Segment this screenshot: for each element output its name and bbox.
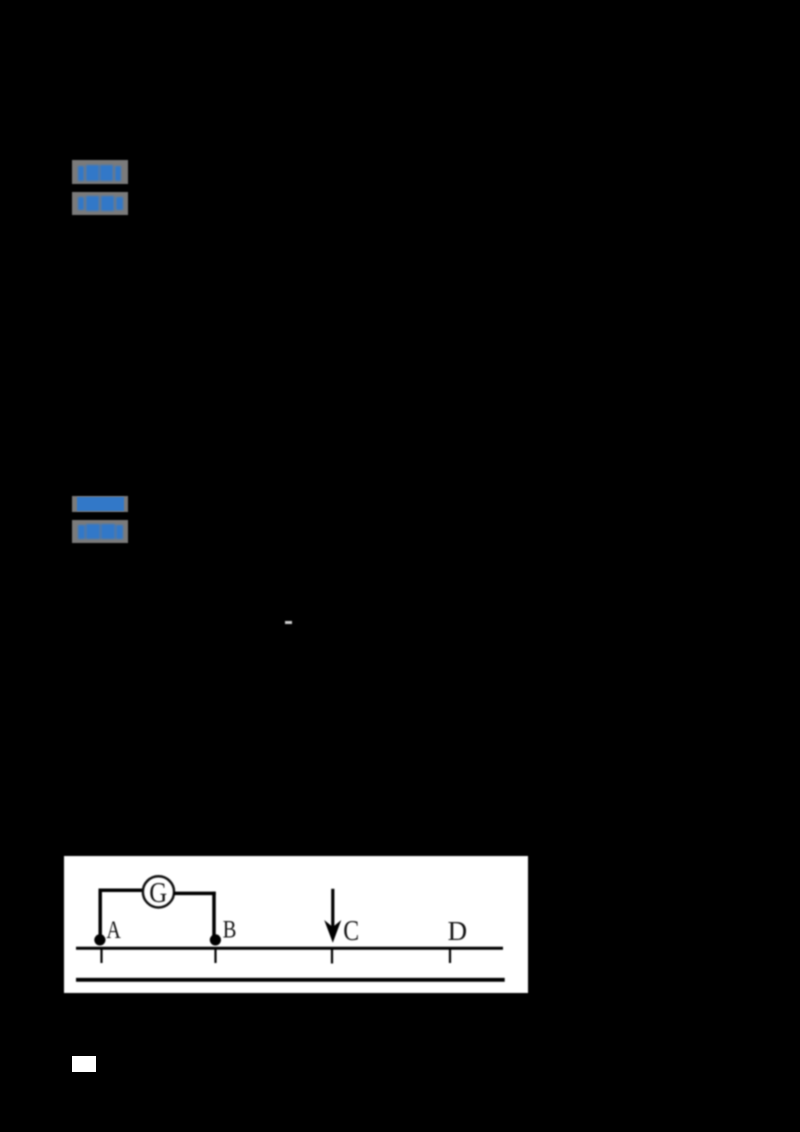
- node analysis-chip-1 (【解析】 label, blue on grey): [72, 192, 128, 215]
- node answer-chip-1 (【答案】 label, blue on grey): [72, 160, 128, 184]
- node analysis-chip-2 (【解析】 label, blue on grey): [72, 520, 128, 544]
- tick at B: [214, 949, 216, 963]
- node answer-chip-2 (【答案】 label, blue on grey): [72, 496, 128, 512]
- node white-rect (small blank block): [72, 1056, 96, 1072]
- figure background: [64, 856, 528, 993]
- node A contact dot: [94, 934, 105, 945]
- svg-text:G: G: [149, 876, 167, 908]
- galvanometer U1 circle: [143, 876, 174, 907]
- tick at C: [331, 949, 333, 963]
- svg-text:A: A: [106, 915, 121, 943]
- wire vertical at B: [212, 891, 216, 939]
- rail bottom (wire): [76, 977, 505, 981]
- svg-text:C: C: [343, 915, 359, 946]
- rail top (wire): [76, 946, 503, 949]
- node white-speck (faint formula fragment): [285, 621, 292, 625]
- tick at A: [100, 949, 102, 963]
- wire horizontal left to galvanometer: [99, 888, 144, 892]
- wire vertical at A: [98, 890, 102, 940]
- wire horizontal right from galvanometer: [174, 891, 216, 895]
- node B contact dot: [210, 934, 221, 945]
- svg-text:D: D: [448, 915, 468, 945]
- arrow at C head: [324, 920, 341, 943]
- svg-text:B: B: [223, 915, 237, 942]
- tick at D: [449, 949, 451, 963]
- figure box: two rails with galvanometer circuit, points A B C D: [64, 856, 528, 993]
- arrow at C shaft: [331, 888, 334, 927]
